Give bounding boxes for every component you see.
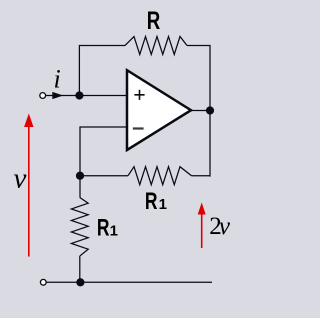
svg-text:R: R (145, 188, 158, 215)
wire node down (79, 176, 81, 198)
node R1 junction (76, 172, 84, 180)
terminal bottom-left (40, 279, 46, 285)
node input junction (75, 91, 83, 99)
node output junction (206, 106, 214, 114)
resistor R1 vertical (71, 198, 88, 257)
wire input (46, 95, 127, 97)
op-amp minus sign (133, 127, 144, 129)
voltage arrow 2v (201, 213, 203, 248)
terminal top-left (40, 93, 46, 99)
svg-text:i: i (54, 64, 61, 93)
resistor R1 horizontal (128, 167, 192, 185)
svg-text:1: 1 (159, 196, 167, 213)
wire output (191, 110, 210, 112)
wire feedback top (79, 46, 125, 96)
voltage arrow v (28, 125, 30, 257)
wire R to right rail (187, 46, 210, 177)
wire node to R1 (80, 175, 128, 177)
node bottom junction (76, 278, 84, 286)
op-amp U1 (127, 70, 191, 150)
svg-text:v: v (219, 213, 231, 240)
op-amp plus sign (134, 90, 144, 100)
wire R1 to right rail (192, 175, 211, 177)
svg-text:1: 1 (110, 223, 118, 240)
resistor R (125, 37, 187, 55)
wire bottom rail (47, 281, 213, 283)
wire resistor to bottom rail (79, 256, 81, 282)
current arrow i (52, 92, 63, 99)
svg-text:R: R (97, 215, 110, 242)
svg-text:R: R (147, 7, 161, 35)
svg-text:v: v (14, 163, 27, 195)
wire inverting input (80, 127, 127, 176)
